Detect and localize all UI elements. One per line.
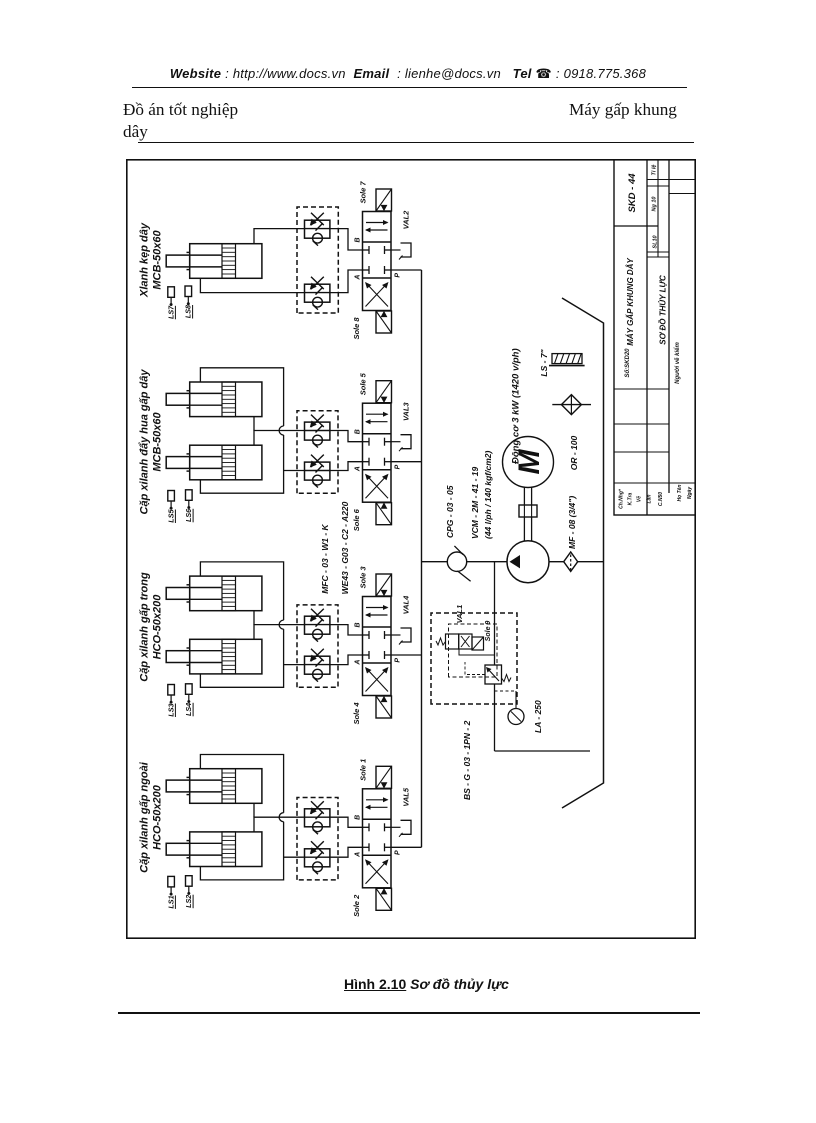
svg-text:B: B (355, 622, 362, 627)
cylinder XL4b rod (166, 843, 190, 855)
flow control valve FV1b through line (305, 228, 330, 230)
VAL4 solenoid Sole 4 (left) (376, 696, 392, 718)
flow control valve FV4a body (305, 849, 330, 867)
svg-text:MCB-50x60: MCB-50x60 (152, 229, 164, 289)
svg-text:P: P (395, 464, 402, 469)
cylinder XL4a piston (222, 769, 236, 804)
cylinder XL4a body (190, 769, 262, 804)
hydraulic pump VCM-2M-41-19 (507, 541, 549, 583)
svg-text:LS5: LS5 (166, 509, 175, 523)
svg-text:Ch.Nhg*: Ch.Nhg* (619, 488, 625, 509)
cylinder XL3a body (190, 576, 262, 611)
wire flow valve FV1b to port B of VAL2 (330, 229, 363, 250)
svg-text:Cặp xilanh gấp ngoài: Cặp xilanh gấp ngoài (139, 761, 151, 873)
dashed enclosure VAL1 (431, 613, 517, 704)
svg-text:B: B (355, 237, 362, 242)
bottom rule (118, 1012, 700, 1014)
svg-text:Họ Tên: Họ Tên (677, 485, 683, 502)
main relief valve BS-G-03 (485, 665, 502, 684)
svg-text:Sole 2: Sole 2 (352, 894, 361, 917)
svg-text:VAL1: VAL1 (455, 605, 464, 624)
wire flow valve FV1a to port A of VAL2 (330, 270, 363, 293)
dashed enclosure flow valves group 1 (297, 207, 338, 313)
directional valve VAL5 body (363, 789, 392, 888)
flow control valve FV1a throttle arrow (311, 277, 324, 289)
flow control valve FV2a body (305, 462, 330, 480)
svg-text:C.N50: C.N50 (658, 492, 664, 506)
flow control valve FV3a through line (305, 664, 330, 666)
limit switch LS1 (168, 876, 175, 887)
cylinder XL2b rod (166, 457, 190, 469)
svg-text:LS1: LS1 (166, 895, 175, 908)
flow control valve FV4a throttle arrow (311, 841, 324, 853)
wire flow valve FV4b to port B of VAL5 (330, 817, 363, 827)
cylinder XL3b rod (166, 651, 190, 663)
VAL2 T port drain to tank symbol (391, 249, 401, 251)
limit switch LS3 (168, 685, 175, 696)
svg-text:Người vẽ kiểm: Người vẽ kiểm (674, 342, 681, 384)
svg-text:A: A (355, 466, 362, 472)
VAL2 P line to pressure bus (391, 269, 422, 271)
header rule 1 (132, 87, 687, 88)
svg-text:Ngày: Ngày (687, 487, 693, 499)
directional valve VAL4 body (363, 597, 392, 696)
svg-text:Tỉ lệ: Tỉ lệ (652, 164, 658, 175)
svg-text:Xlanh kẹp dây: Xlanh kẹp dây (139, 222, 151, 298)
limit switch LS4 (186, 684, 193, 695)
flow control valve FV4b throttle arrow (311, 801, 324, 813)
flow control valve FV4b check ball (313, 822, 323, 832)
pilot solenoid valve Sole 9 (446, 634, 459, 649)
dashed enclosure flow valves VAL3 group (297, 411, 338, 493)
wire rod loop to flow valve FV2a (284, 470, 305, 472)
title block grid (614, 159, 696, 515)
tank breather LS-7 (549, 365, 585, 367)
VAL2 parallel-flow square arrows (366, 229, 388, 231)
wire cap-end ports to flow valve FV2b (254, 431, 305, 446)
svg-text:LS7: LS7 (166, 305, 175, 319)
svg-text:B: B (355, 815, 362, 820)
svg-text:A: A (355, 660, 362, 666)
relief branch return to tank (495, 750, 591, 752)
svg-text:Sole 7: Sole 7 (359, 181, 368, 204)
VAL5 P line to pressure bus (391, 846, 422, 848)
svg-text:VAL2: VAL2 (402, 210, 411, 229)
svg-text:Ng 10: Ng 10 (652, 197, 658, 212)
svg-text:Cặp xilanh đẩy hua gấp dây: Cặp xilanh đẩy hua gấp dây (139, 369, 151, 515)
svg-text:LS6: LS6 (184, 508, 193, 522)
flow control valve FV4a through line (305, 856, 330, 858)
svg-text:LS - 7": LS - 7" (539, 348, 549, 376)
svg-text:Sole 6: Sole 6 (352, 508, 361, 531)
flow control valve FV2a throttle arrow (311, 455, 324, 467)
svg-text:Sole 8: Sole 8 (352, 317, 361, 340)
svg-text:P: P (395, 273, 402, 278)
svg-text:Sole 3: Sole 3 (359, 566, 368, 589)
svg-text:LS2: LS2 (184, 895, 193, 908)
flow control valve FV4b through line (305, 816, 330, 818)
header right: May gap khung (569, 100, 695, 120)
cylinder XL2b body (190, 445, 262, 480)
svg-text:Lần: Lần (647, 495, 653, 504)
limit switch LS6 (186, 490, 193, 501)
svg-text:Số:SKD20: Số:SKD20 (624, 348, 631, 378)
VAL2 closed-centre port marks (363, 269, 370, 271)
cylinder XL1 rod (166, 255, 190, 267)
cylinder XL2a body (190, 382, 262, 417)
pump-motor shaft and coupling (523, 488, 525, 541)
svg-text:K.Tra: K.Tra (628, 492, 634, 505)
VAL4 parallel-flow square arrows (366, 614, 388, 616)
wire cylinder XL1 cap port to flow valve FV1b (254, 229, 305, 244)
svg-text:P: P (395, 850, 402, 855)
VAL5 crossed-flow square arrows (366, 860, 388, 884)
check valve CPG-03-05 (447, 552, 466, 571)
gauge dashed tap line (495, 690, 517, 692)
VAL4 T port drain to tank symbol (391, 634, 401, 636)
flow control valve FV3a throttle arrow (311, 649, 324, 661)
flow control valve FV2b body (305, 422, 330, 440)
VAL3 solenoid Sole 6 (left) (376, 503, 392, 525)
VAL5 T port drain to tank symbol (391, 826, 401, 828)
pressure gauge LA-250 (508, 709, 524, 725)
drawing frame border (127, 160, 695, 938)
wire flow valve FV2b to port B of VAL3 (330, 431, 363, 442)
rotated schematic (126, 159, 696, 939)
VAL3 P line to pressure bus (391, 461, 422, 463)
header rule 2 (138, 142, 694, 143)
svg-text:VAL5: VAL5 (402, 787, 411, 806)
wire cap-end ports to flow valve FV3b (254, 625, 305, 640)
flow control valve FV3a body (305, 656, 330, 674)
wire rod-end loop of VAL5 group (200, 822, 283, 880)
svg-text:VAL4: VAL4 (402, 595, 411, 614)
flow control valve FV2b through line (305, 430, 330, 432)
pilot dashed line (465, 674, 485, 676)
VAL2 solenoid Sole 7 (right) (376, 189, 392, 211)
directional valve VAL2 body (363, 212, 392, 311)
VAL3 T port drain to tank symbol (391, 441, 401, 443)
svg-text:LS3: LS3 (166, 704, 175, 717)
VAL4 P line to pressure bus (391, 654, 422, 656)
svg-text:CPG - 03 - 05: CPG - 03 - 05 (445, 485, 455, 538)
svg-text:A: A (355, 852, 362, 858)
svg-text:Sole 5: Sole 5 (359, 372, 368, 395)
svg-text:WE43 - G03 - C2 - A220: WE43 - G03 - C2 - A220 (340, 501, 350, 594)
flow control valve FV4b body (305, 809, 330, 827)
flow control valve FV2a through line (305, 470, 330, 472)
svg-text:HCO-50x200: HCO-50x200 (152, 594, 164, 660)
VAL3 parallel-flow square arrows (366, 421, 388, 423)
svg-text:MF - 08 (3/4"): MF - 08 (3/4") (567, 496, 577, 549)
wire pilot valve to main line (459, 649, 486, 655)
svg-text:SKD - 44: SKD - 44 (627, 173, 638, 213)
wire rod-end loop of VAL3 group (200, 435, 283, 493)
flow control valve FV1b check ball (313, 233, 323, 243)
limit switch LS7 (168, 287, 175, 298)
flow control valve FV3b throttle arrow (311, 609, 324, 621)
svg-text:Sole 4: Sole 4 (352, 702, 361, 725)
flow control valve FV1a body (305, 284, 330, 302)
pressure bus line P (421, 270, 423, 847)
flow control valve FV2b check ball (313, 435, 323, 445)
oil tank outline (562, 298, 604, 808)
VAL4 closed-centre port marks (363, 654, 370, 656)
flow control valve FV3b body (305, 616, 330, 634)
VAL4 crossed-flow square arrows (366, 668, 388, 692)
cylinder XL4b piston (222, 832, 236, 867)
VAL4 solenoid Sole 3 (right) (376, 574, 392, 596)
VAL3 closed-centre port marks (363, 461, 370, 463)
cylinder XL1 body (190, 244, 262, 279)
wire flow valve FV3a to port A of VAL4 (330, 655, 363, 665)
wire rod-end loop of VAL4 group (200, 629, 283, 687)
cylinder XL1 piston (222, 244, 236, 279)
cylinder XL4b body (190, 832, 262, 867)
header word day (123, 122, 148, 142)
limit switch LS8 (185, 286, 192, 297)
svg-text:A: A (355, 275, 362, 281)
svg-text:B: B (355, 429, 362, 434)
relief branch line (494, 684, 496, 751)
header left: Do an tot nghiep (123, 100, 238, 120)
cylinder XL2a piston (222, 382, 236, 417)
svg-text:(44 l/ph / 140 kgf/cm2): (44 l/ph / 140 kgf/cm2) (483, 450, 493, 539)
cylinder XL4a rod (166, 780, 190, 792)
svg-text:VAL3: VAL3 (402, 402, 411, 421)
svg-text:VCM - 2M - 41 - 19: VCM - 2M - 41 - 19 (470, 466, 480, 539)
svg-text:LS4: LS4 (184, 703, 193, 716)
VAL5 parallel-flow square arrows (366, 806, 388, 808)
svg-text:MCB-50x60: MCB-50x60 (152, 411, 164, 471)
dashed inner pilot enclosure (449, 624, 498, 677)
svg-text:SL10: SL10 (653, 235, 659, 248)
svg-text:Sole 9: Sole 9 (485, 621, 492, 642)
flow control valve FV1b throttle arrow (311, 213, 324, 225)
svg-text:SƠ ĐỒ THỦY LỰC: SƠ ĐỒ THỦY LỰC (658, 275, 668, 345)
flow control valve FV3b check ball (313, 629, 323, 639)
svg-text:Sole 1: Sole 1 (359, 759, 368, 781)
VAL5 solenoid Sole 1 (right) (376, 766, 392, 788)
wire cap-end ports to flow valve FV4b (254, 817, 305, 832)
directional valve VAL3 body (363, 403, 392, 502)
cylinder XL2a rod (166, 393, 190, 405)
flow control valve FV3a check ball (313, 669, 323, 679)
svg-text:MÁY GẤP KHUNG DÂY: MÁY GẤP KHUNG DÂY (626, 258, 635, 346)
svg-text:BS - G - 03 - 1PN - 2: BS - G - 03 - 1PN - 2 (462, 720, 472, 800)
svg-text:LS8: LS8 (184, 305, 193, 318)
limit switch LS5 (168, 491, 175, 502)
cylinder XL2b piston (222, 445, 236, 480)
svg-text:LA - 250: LA - 250 (533, 700, 543, 733)
cylinder XL3a piston (222, 576, 236, 611)
return filter OR-100 (552, 404, 591, 406)
VAL2 crossed-flow square arrows (366, 283, 388, 307)
flow control valve FV1a check ball (313, 297, 323, 307)
dashed enclosure flow valves VAL5 group (297, 798, 338, 880)
wire rod loop to flow valve FV3a (284, 664, 305, 666)
VAL5 closed-centre port marks (363, 846, 370, 848)
flow control valve FV2a check ball (313, 475, 323, 485)
wire flow valve FV4a to port A of VAL5 (330, 847, 363, 857)
cylinder XL3a rod (166, 588, 190, 600)
flow control valve FV1a through line (305, 292, 330, 294)
wire cylinder XL1 rod port to flow valve FV1a (200, 278, 305, 292)
VAL2 solenoid Sole 8 (left) (376, 311, 392, 333)
dashed enclosure flow valves VAL4 group (297, 605, 338, 687)
electric motor M (503, 437, 554, 488)
wire flow valve FV2a to port A of VAL3 (330, 462, 363, 471)
flow control valve FV2b throttle arrow (311, 415, 324, 427)
svg-text:Cặp xilanh gấp trong: Cặp xilanh gấp trong (139, 572, 151, 682)
cylinder XL3b piston (222, 639, 236, 674)
flow control valve FV4a check ball (313, 862, 323, 872)
figure caption (344, 976, 509, 992)
wire flow valve FV3b to port B of VAL4 (330, 625, 363, 635)
VAL3 crossed-flow square arrows (366, 475, 388, 499)
svg-text:Động cơ 3 kW (1420 v/ph): Động cơ 3 kW (1420 v/ph) (511, 348, 522, 464)
cylinder XL3b body (190, 639, 262, 674)
flow control valve FV1b body (305, 220, 330, 238)
bus drop to check valve/pump (422, 561, 448, 563)
svg-text:Vẽ: Vẽ (637, 496, 643, 502)
svg-text:HCO-50x200: HCO-50x200 (152, 784, 164, 850)
header website line (0, 66, 816, 82)
svg-text:P: P (395, 658, 402, 663)
wire rod loop to flow valve FV4a (284, 856, 305, 858)
svg-text:MFC - 03 - W1 - K: MFC - 03 - W1 - K (320, 523, 330, 593)
limit switch LS2 (186, 876, 193, 887)
svg-text:OR - 100: OR - 100 (569, 435, 579, 470)
flow control valve FV3b through line (305, 624, 330, 626)
VAL3 solenoid Sole 5 (right) (376, 381, 392, 403)
suction filter MF-08 (549, 561, 564, 563)
wire check valve to pump (467, 561, 507, 563)
VAL5 solenoid Sole 2 (left) (376, 888, 392, 910)
